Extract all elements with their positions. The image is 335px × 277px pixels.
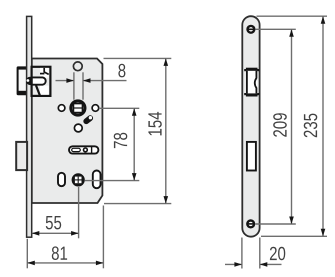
dim 8: extension lines [73,72,75,99]
dim 209: arrows [289,29,294,37]
small circle left of follower [58,105,65,112]
dim 78: arrows [132,108,137,116]
dim 209: dimension line [291,29,293,224]
top screw [248,26,255,33]
striker plate (front view) [242,16,259,237]
dim 20: extension lines [241,238,243,269]
dim 154: arrows [164,58,169,66]
dim 8: label [118,64,125,78]
dim 20: dimension lines [225,263,242,265]
latch bolt head (protruding) [17,66,29,95]
dim 235: label [304,114,318,138]
left oval slot [58,173,65,186]
lock body case [32,59,103,204]
follower (square spindle hub) [71,101,85,115]
dim 55: dimension line [32,232,79,234]
latch bolt pivot boss [26,77,34,85]
dim 81: dimension line [27,262,103,264]
dim 235: extension lines [257,15,328,17]
dim 20: label [270,247,285,261]
lower follower (WC hub) [72,173,85,186]
bottom screw [247,221,254,228]
dim 81: label [52,246,67,260]
circle below follower [74,124,82,132]
horizontal slot mechanism [69,146,98,153]
dim 78: dimension line [133,108,135,180]
dim 209: extension lines [256,28,296,30]
small circle right of follower [92,105,99,112]
top hole [73,62,82,71]
dim 154: extension lines [104,57,172,59]
latch mechanism (inside case) [32,67,51,96]
dim 235: dimension line [322,16,324,236]
deadbolt (protruding) [16,142,27,170]
right oval slot [93,171,101,189]
dim 20: arrows [234,262,242,267]
faceplate (side view) [27,16,32,237]
dim 55: label [46,216,61,229]
dim 8: dimension lines [56,80,74,82]
dim 55: extension line [78,187,80,238]
dim 235: arrows [321,16,326,24]
dim 8: arrows [66,78,74,83]
dim 154: dimension line [165,58,167,203]
dim 81: arrows [27,261,35,266]
dim 55: arrows [32,231,40,236]
latch cutout on plate [244,68,259,97]
dim 81: extension lines [26,239,28,268]
angled stud below follower [82,114,94,125]
deadbolt cutout on plate [247,142,256,171]
dim 78: label [114,133,128,148]
dim 154: label [148,112,161,135]
dim 78: extension lines [99,107,140,109]
dim 209: label [273,113,287,137]
